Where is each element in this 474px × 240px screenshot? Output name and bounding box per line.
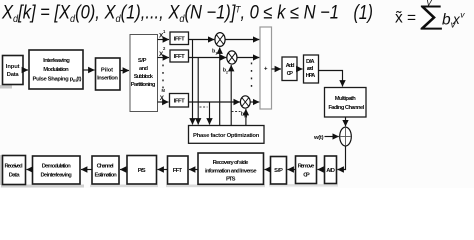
svg-text:CP: CP <box>303 173 310 179</box>
svg-text:FFT: FFT <box>173 168 183 174</box>
svg-text:(1): (1) <box>354 1 374 24</box>
svg-text:A/D: A/D <box>326 168 335 174</box>
svg-text:Modulation: Modulation <box>43 67 69 73</box>
svg-text:Partitioning: Partitioning <box>131 82 156 88</box>
svg-text:M: M <box>162 88 166 93</box>
svg-text:1: 1 <box>215 52 217 56</box>
svg-text:information and Inverse: information and Inverse <box>205 168 257 174</box>
svg-text:Insertion: Insertion <box>97 76 118 82</box>
svg-text:2: 2 <box>226 71 228 75</box>
svg-text:Deinterleaving: Deinterleaving <box>41 173 73 179</box>
svg-text:HPA: HPA <box>306 73 317 79</box>
svg-text:xv: xv <box>452 10 465 28</box>
svg-text:IFFT: IFFT <box>174 36 185 42</box>
svg-text:Fading Channel: Fading Channel <box>328 105 364 111</box>
svg-text:and: and <box>139 66 148 72</box>
svg-text:Xd[k] = [Xd(0), Xd(1),..., Xd(: Xd[k] = [Xd(0), Xd(1),..., Xd(N −1)]T, 0… <box>1 3 339 26</box>
svg-text:S/P: S/P <box>274 168 283 174</box>
svg-text:Estimation: Estimation <box>95 173 118 179</box>
svg-text:S/P: S/P <box>138 58 147 64</box>
svg-text:Interleaving: Interleaving <box>43 58 70 64</box>
svg-text:Data: Data <box>7 72 20 78</box>
svg-text:Demodulation: Demodulation <box>42 164 71 170</box>
svg-text:Recovery of side: Recovery of side <box>213 160 250 166</box>
svg-text:IFFT: IFFT <box>174 98 185 104</box>
svg-text:Add: Add <box>286 63 295 69</box>
svg-text:M: M <box>244 115 247 119</box>
svg-text:Channel: Channel <box>97 164 114 170</box>
svg-text:X: X <box>160 95 165 102</box>
svg-text:Pilot: Pilot <box>101 68 113 74</box>
svg-text:x̃ =: x̃ = <box>395 10 416 27</box>
svg-text:X: X <box>159 51 164 58</box>
svg-text:Remove: Remove <box>298 164 315 170</box>
svg-text:and: and <box>307 66 314 72</box>
svg-text:∑: ∑ <box>418 0 445 30</box>
svg-text:Data: Data <box>9 173 21 179</box>
svg-text:CP: CP <box>287 71 293 77</box>
svg-text:IFFT: IFFT <box>174 54 185 60</box>
svg-text:w(t): w(t) <box>313 135 324 141</box>
svg-text:+: + <box>264 66 268 72</box>
svg-text:P/S: P/S <box>138 168 146 174</box>
svg-text:1: 1 <box>163 29 166 34</box>
svg-text:Phase factor Optimization: Phase factor Optimization <box>193 133 260 139</box>
svg-text:Subblock: Subblock <box>134 74 154 80</box>
svg-text:Input: Input <box>6 64 20 70</box>
svg-text:Multipath: Multipath <box>335 96 357 102</box>
svg-text:2: 2 <box>163 46 166 51</box>
svg-text:PTS: PTS <box>226 177 236 183</box>
svg-text:Received: Received <box>5 164 24 170</box>
svg-text:D/A: D/A <box>306 59 315 65</box>
svg-text:Pulse Shaping pm(t): Pulse Shaping pm(t) <box>33 76 82 83</box>
